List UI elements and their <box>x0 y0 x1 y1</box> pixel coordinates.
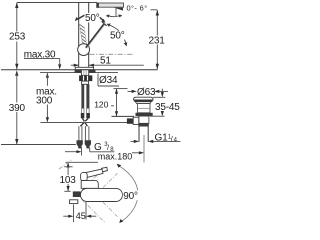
base bits <box>70 200 78 204</box>
G1 1/4 thread arrows <box>131 133 181 144</box>
dash-dot horizontal reference from ball <box>90 53 135 55</box>
body <box>81 181 98 189</box>
label 50deg left <box>85 13 100 23</box>
shank lower section <box>82 81 89 84</box>
ghost spout swivelled down-right (dash-dot edges) <box>82 190 118 223</box>
Ø63 dimension <box>128 87 169 98</box>
svg-text:G1: G1 <box>155 133 169 144</box>
svg-text:90°: 90° <box>123 191 138 202</box>
open lever (solid, 50deg) <box>86 22 107 49</box>
svg-text:Ø34: Ø34 <box>99 75 118 86</box>
mounting nut <box>79 75 92 81</box>
svg-text:253: 253 <box>9 32 26 43</box>
90 degree arc <box>117 164 138 223</box>
deck underside line <box>40 71 118 73</box>
waste flange <box>134 97 153 103</box>
svg-text:Ø63: Ø63 <box>137 87 156 98</box>
35-45 dimension <box>150 89 180 117</box>
left 50deg arc arrow <box>75 15 85 21</box>
lower hoses <box>79 126 89 140</box>
svg-text:300: 300 <box>36 95 53 106</box>
base plate <box>75 67 93 70</box>
103 reference line <box>65 161 98 163</box>
svg-text:50°: 50° <box>110 31 125 42</box>
supply hoses upper <box>81 84 90 118</box>
max.30 label <box>24 49 62 77</box>
dimension max.300 <box>36 73 57 122</box>
lever tilt tick and arc 0-6 <box>106 8 123 18</box>
right side of left 50deg arc <box>100 17 106 22</box>
top reference line <box>17 2 97 4</box>
dimension 253 <box>8 3 27 76</box>
spout (top view stadium) <box>81 188 123 201</box>
120 dimension <box>94 89 134 117</box>
dimension 390 <box>8 73 27 145</box>
hatched open-lever ghost <box>79 24 87 46</box>
waste upper body <box>138 104 150 113</box>
max.180 dimension <box>65 147 144 162</box>
lever (top view) <box>81 167 108 180</box>
dark band at body bottom <box>138 123 149 126</box>
lever handle bar (closed position) <box>96 3 123 11</box>
ball joint <box>78 44 90 56</box>
svg-text:45: 45 <box>76 211 86 221</box>
svg-text:120: 120 <box>94 100 108 110</box>
svg-text:103: 103 <box>60 175 77 186</box>
hose end fittings <box>77 140 92 148</box>
deck line <box>1 69 158 71</box>
svg-text:51: 51 <box>100 56 111 67</box>
svg-text:max.180: max.180 <box>98 152 133 162</box>
svg-text:0°- 6°: 0°- 6° <box>127 3 148 12</box>
spout column <box>79 3 89 68</box>
svg-text:35-45: 35-45 <box>155 102 180 113</box>
dimension 231 <box>148 10 167 69</box>
deck gasket dark bands <box>75 70 82 73</box>
side lug <box>133 117 139 124</box>
hose crossing <box>80 118 88 126</box>
103 dimension <box>60 162 77 191</box>
clamping ring (dark) <box>136 113 153 116</box>
small dash-dot diagonal near 103 ref <box>59 160 72 170</box>
hose end reference line <box>1 144 76 146</box>
max.300 reference line <box>41 122 128 124</box>
45 dimension <box>63 202 96 222</box>
svg-text:231: 231 <box>149 35 166 46</box>
ghost spout swivelled up-right (dash-dot edges) <box>82 167 118 200</box>
svg-text:50°: 50° <box>85 13 100 24</box>
right 50deg arc <box>107 24 128 47</box>
threaded shank <box>81 70 88 76</box>
G 3/8 label <box>90 142 115 153</box>
svg-text:390: 390 <box>9 103 26 114</box>
dark knob at spout left <box>73 191 81 197</box>
leader line from 0-6 label <box>151 9 158 11</box>
tail pipe <box>139 127 148 163</box>
waste lower body <box>139 116 149 123</box>
label 50deg right <box>110 31 126 40</box>
Ø34 label <box>98 74 119 87</box>
51 dimension arrows <box>71 56 144 67</box>
